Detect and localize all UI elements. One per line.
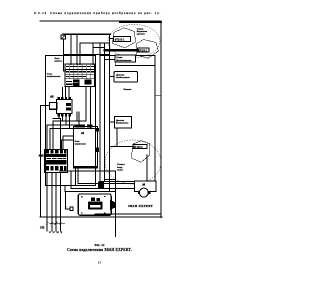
wires into summ box: [105, 58, 115, 60]
wire from hexagon3 down: [146, 155, 148, 181]
breaker AB: [58, 97, 71, 100]
humidity sensor box: [110, 121, 115, 123]
node: upper level link text: [136, 28, 148, 35]
phase labels: [49, 232, 63, 234]
wire below humidity sensor: [116, 128, 118, 147]
compressor enclosure: [78, 194, 111, 215]
compressor body: [91, 198, 95, 201]
svg-text:Датчик: Датчик: [115, 74, 125, 76]
svg-text:х: х: [65, 207, 67, 209]
svg-text:А1: А1: [80, 132, 85, 135]
frame top right segment: [120, 21, 162, 23]
AB to KM jog wires: [47, 116, 96, 149]
cabinet left label: [47, 73, 61, 78]
compressor connector left: [64, 192, 66, 209]
long vertical wire down: [115, 171, 117, 237]
svg-text:конденсации: конденсации: [116, 76, 130, 79]
hexagon node BT100-1: [113, 28, 136, 48]
header rule / frame top left part: [40, 20, 161, 22]
aux wire left down: [41, 105, 50, 107]
svg-text:6.3.14 Схема подключения приб: 6.3.14 Схема подключения прибора изображ…: [34, 11, 161, 15]
inner right box: [100, 55, 155, 181]
svg-text:ВТ100 3: ВТ100 3: [134, 146, 144, 149]
wire: [76, 34, 78, 64]
enclosure right connector: [110, 200, 115, 210]
cabinet box: [46, 56, 96, 186]
cable slash marks: [46, 222, 65, 225]
wire under summ box: [114, 62, 116, 65]
box BT100 1: [113, 36, 130, 41]
hexagon node BT100-3: [131, 141, 150, 163]
wire down into terminal block: [70, 34, 72, 64]
wire: [64, 54, 110, 56]
motor box: [135, 181, 157, 192]
svg-text:ВТ100 2: ВТ100 2: [138, 49, 148, 52]
top cloud: [108, 25, 160, 58]
wire: [92, 43, 94, 65]
long horizontal wire: [59, 170, 115, 172]
svg-text:Сумм.: Сумм.: [116, 57, 123, 59]
svg-text:Схема подключения ЗВАН EXPERT.: Схема подключения ЗВАН EXPERT.: [67, 248, 132, 252]
condensation sensor box: [110, 76, 114, 78]
wire bottom inner line: [95, 213, 161, 215]
block cell marks: [67, 67, 94, 77]
svg-text:АВ: АВ: [49, 96, 54, 99]
frame bottom edge: [40, 216, 162, 218]
summ switch box: [115, 55, 136, 62]
KM bottom wires to stubs: [47, 112, 79, 231]
svg-text:уровня: уровня: [136, 34, 146, 36]
svg-text:15: 15: [98, 260, 102, 264]
wire: [79, 43, 81, 65]
wire thick to BT100-2: [105, 49, 138, 52]
corner junction dark: [98, 182, 104, 189]
wire: [63, 39, 65, 71]
wire horizontal mid: [80, 42, 110, 44]
bottom horizontal wires: [70, 171, 72, 189]
svg-text:управл.: управл.: [54, 60, 63, 62]
bundle verticals: [104, 59, 106, 181]
bottom cloud: [105, 140, 161, 184]
screws: [81, 196, 105, 214]
wire tick right: [155, 95, 161, 97]
svg-text:подключения: подключения: [47, 75, 61, 78]
block bottom black cells: [73, 79, 80, 86]
connector XP top: [61, 35, 66, 39]
svg-text:Выключатель: Выключатель: [116, 60, 132, 62]
frame right edge: [160, 22, 162, 218]
terminal block XT1: [65, 64, 94, 87]
wires A1 bottom down: [75, 168, 77, 185]
hexagon node BT100-2: [136, 40, 159, 59]
svg-text:Влажности: Влажности: [116, 123, 129, 125]
box BT100 2: [138, 48, 150, 52]
contactor KM: [45, 149, 68, 172]
cabinet title: [54, 58, 63, 63]
svg-text:Датчик: Датчик: [115, 120, 125, 122]
wires block bottom down: [68, 87, 70, 97]
svg-text:ВТ100 1: ВТ100 1: [115, 37, 125, 41]
svg-text:ЗВАН EXPERT: ЗВАН EXPERT: [128, 204, 154, 208]
wire thick to BT100-1: [63, 33, 110, 35]
wire: [93, 47, 105, 49]
svg-text:Рис. 12: Рис. 12: [95, 243, 105, 247]
svg-text:управления: управления: [75, 144, 86, 146]
svg-text:ХТ2: ХТ2: [39, 226, 45, 229]
wire into block left: [64, 70, 66, 72]
svg-text:связи: связи: [117, 169, 124, 171]
controller A1: [74, 127, 98, 169]
alarm link text: [116, 164, 125, 171]
svg-text:Клапан: Клапан: [124, 89, 132, 91]
svg-text:КМ1: КМ1: [39, 154, 45, 157]
